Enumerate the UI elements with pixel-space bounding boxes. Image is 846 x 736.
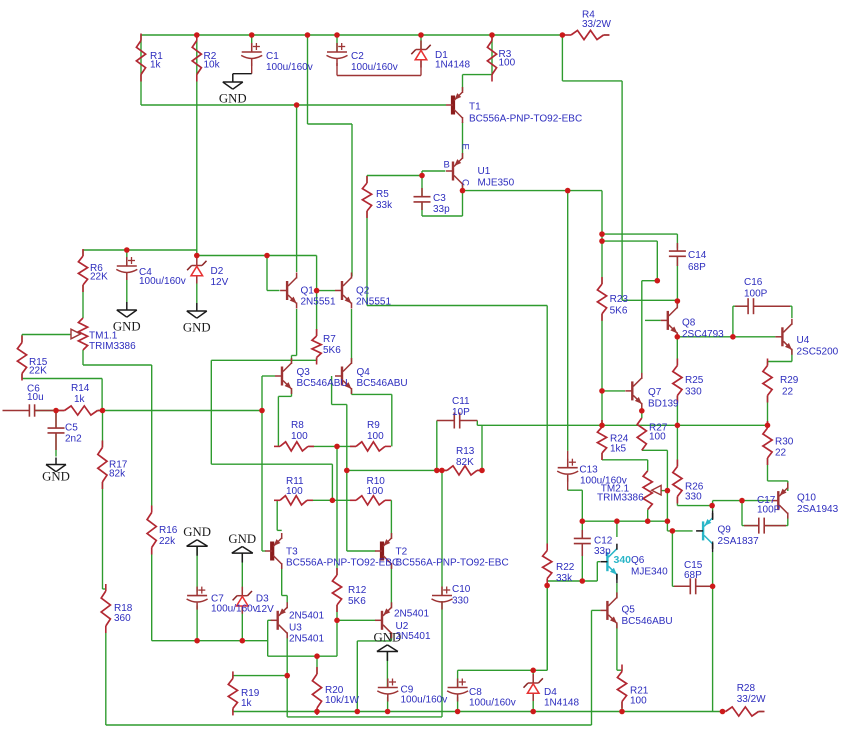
svg-text:C11: C11 [452, 396, 470, 407]
svg-text:Q4: Q4 [357, 367, 371, 378]
svg-text:U1: U1 [478, 166, 491, 177]
svg-text:R28: R28 [737, 683, 756, 694]
svg-text:R14: R14 [71, 383, 90, 394]
svg-text:BC546ABU: BC546ABU [622, 616, 673, 627]
svg-text:BC556A-PNP-TO92-EBC: BC556A-PNP-TO92-EBC [286, 558, 399, 569]
svg-text:1N4148: 1N4148 [544, 698, 579, 709]
svg-text:2SA1837: 2SA1837 [718, 536, 760, 547]
svg-text:100u/160v: 100u/160v [469, 698, 516, 709]
svg-text:C8: C8 [469, 687, 482, 698]
svg-text:U3: U3 [289, 623, 302, 634]
svg-text:R25: R25 [685, 375, 704, 386]
svg-text:GND: GND [228, 532, 256, 546]
svg-text:22: 22 [775, 448, 787, 459]
svg-text:330: 330 [685, 387, 702, 398]
svg-text:T1: T1 [469, 102, 481, 113]
svg-text:2N5551: 2N5551 [356, 297, 391, 308]
svg-text:2N5551: 2N5551 [301, 297, 336, 308]
svg-text:R8: R8 [291, 420, 304, 431]
svg-text:100: 100 [367, 431, 384, 442]
svg-text:100: 100 [630, 696, 647, 707]
svg-text:MJE340: MJE340 [631, 567, 668, 578]
svg-text:1k5: 1k5 [610, 444, 627, 455]
svg-text:100: 100 [291, 431, 308, 442]
svg-text:2N5401: 2N5401 [289, 611, 324, 622]
svg-text:68P: 68P [688, 262, 706, 273]
svg-text:82k: 82k [109, 469, 126, 480]
svg-text:2SA1943: 2SA1943 [797, 504, 839, 515]
svg-text:10P: 10P [452, 407, 470, 418]
svg-text:100: 100 [286, 486, 303, 497]
svg-text:C: C [459, 179, 470, 186]
svg-text:12V: 12V [211, 277, 229, 288]
svg-text:33k: 33k [376, 200, 393, 211]
svg-text:Q1: Q1 [301, 286, 315, 297]
svg-text:1k: 1k [150, 60, 162, 71]
svg-text:GND: GND [183, 525, 211, 539]
svg-text:GND: GND [183, 321, 211, 335]
svg-text:C16: C16 [744, 277, 763, 288]
svg-text:Q2: Q2 [356, 286, 370, 297]
svg-text:MJE350: MJE350 [478, 178, 515, 189]
svg-text:U4: U4 [797, 335, 810, 346]
svg-text:100: 100 [649, 432, 666, 443]
svg-text:R13: R13 [456, 446, 475, 457]
svg-text:12V: 12V [256, 604, 274, 615]
svg-text:B: B [444, 160, 450, 171]
svg-text:360: 360 [114, 613, 131, 624]
svg-text:330: 330 [452, 596, 469, 607]
svg-text:2n2: 2n2 [65, 434, 82, 445]
svg-text:22K: 22K [90, 272, 108, 283]
svg-text:1k: 1k [74, 394, 86, 405]
svg-text:10k: 10k [204, 60, 221, 71]
svg-text:C2: C2 [351, 51, 364, 62]
svg-text:33p: 33p [433, 204, 450, 215]
svg-text:C13: C13 [579, 465, 598, 476]
svg-text:R5: R5 [376, 189, 389, 200]
svg-text:D2: D2 [211, 266, 224, 277]
svg-text:2N5401: 2N5401 [394, 609, 429, 620]
svg-text:100P: 100P [757, 505, 781, 516]
svg-text:1N4148: 1N4148 [435, 60, 470, 71]
svg-text:R22: R22 [556, 562, 575, 573]
svg-text:TRIM3386: TRIM3386 [597, 493, 644, 504]
svg-text:5K6: 5K6 [610, 306, 628, 317]
svg-text:10k/1W: 10k/1W [325, 695, 359, 706]
svg-text:BD139: BD139 [648, 399, 679, 410]
svg-text:Q10: Q10 [797, 493, 816, 504]
svg-text:1k: 1k [241, 698, 253, 709]
svg-text:100u/160v: 100u/160v [266, 62, 313, 73]
svg-text:Q5: Q5 [622, 605, 636, 616]
svg-text:5K6: 5K6 [348, 596, 366, 607]
svg-text:Q6: Q6 [631, 555, 645, 566]
svg-text:2N5401: 2N5401 [396, 631, 431, 642]
svg-text:100u/160v: 100u/160v [139, 276, 186, 287]
svg-text:100u/160v: 100u/160v [351, 62, 398, 73]
svg-text:10u: 10u [27, 392, 44, 403]
svg-text:R16: R16 [159, 525, 178, 536]
svg-text:33k: 33k [556, 573, 573, 584]
svg-text:330: 330 [685, 492, 702, 503]
svg-text:C10: C10 [452, 584, 471, 595]
svg-text:Q3: Q3 [297, 367, 311, 378]
svg-text:Q9: Q9 [718, 525, 732, 536]
svg-text:TM1.1: TM1.1 [89, 331, 118, 342]
svg-text:100u/160v: 100u/160v [401, 695, 448, 706]
svg-text:C5: C5 [65, 423, 78, 434]
svg-text:68P: 68P [684, 570, 702, 581]
svg-text:22k: 22k [159, 536, 176, 547]
svg-text:2SC5200: 2SC5200 [797, 347, 839, 358]
svg-text:33p: 33p [594, 546, 611, 557]
svg-text:C14: C14 [688, 250, 707, 261]
svg-text:T3: T3 [286, 547, 298, 558]
svg-text:100P: 100P [744, 289, 768, 300]
svg-text:E: E [460, 144, 471, 150]
svg-text:5K6: 5K6 [323, 345, 341, 356]
svg-text:33/2W: 33/2W [737, 694, 766, 705]
svg-text:BC546ABU: BC546ABU [297, 378, 348, 389]
svg-text:100: 100 [499, 58, 516, 69]
svg-text:R30: R30 [775, 437, 794, 448]
svg-text:GND: GND [42, 469, 70, 483]
svg-text:R23: R23 [610, 294, 629, 305]
svg-text:T2: T2 [396, 547, 408, 558]
svg-text:C12: C12 [594, 536, 613, 547]
svg-text:33/2W: 33/2W [582, 19, 611, 30]
svg-text:82K: 82K [456, 457, 474, 468]
svg-text:22K: 22K [29, 366, 47, 377]
svg-text:R29: R29 [780, 375, 799, 386]
svg-text:D3: D3 [256, 594, 269, 605]
svg-text:C3: C3 [433, 193, 446, 204]
svg-text:2N5401: 2N5401 [289, 634, 324, 645]
svg-text:C1: C1 [266, 51, 279, 62]
svg-text:BC556A-PNP-TO92-EBC: BC556A-PNP-TO92-EBC [396, 558, 509, 569]
svg-text:Q7: Q7 [648, 387, 662, 398]
svg-text:BC546ABU: BC546ABU [357, 378, 408, 389]
svg-text:TRIM3386: TRIM3386 [89, 341, 136, 352]
svg-text:R9: R9 [367, 420, 380, 431]
svg-text:R12: R12 [348, 585, 367, 596]
svg-text:100u/160v: 100u/160v [211, 604, 258, 615]
svg-text:2SC4793: 2SC4793 [682, 329, 724, 340]
svg-text:GND: GND [219, 92, 247, 106]
svg-text:D4: D4 [544, 687, 557, 698]
svg-text:100: 100 [367, 486, 384, 497]
svg-text:BC556A-PNP-TO92-EBC: BC556A-PNP-TO92-EBC [469, 114, 582, 125]
svg-text:Q8: Q8 [682, 318, 696, 329]
svg-text:340: 340 [614, 554, 632, 566]
svg-text:R7: R7 [323, 334, 336, 345]
svg-text:22: 22 [782, 387, 794, 398]
